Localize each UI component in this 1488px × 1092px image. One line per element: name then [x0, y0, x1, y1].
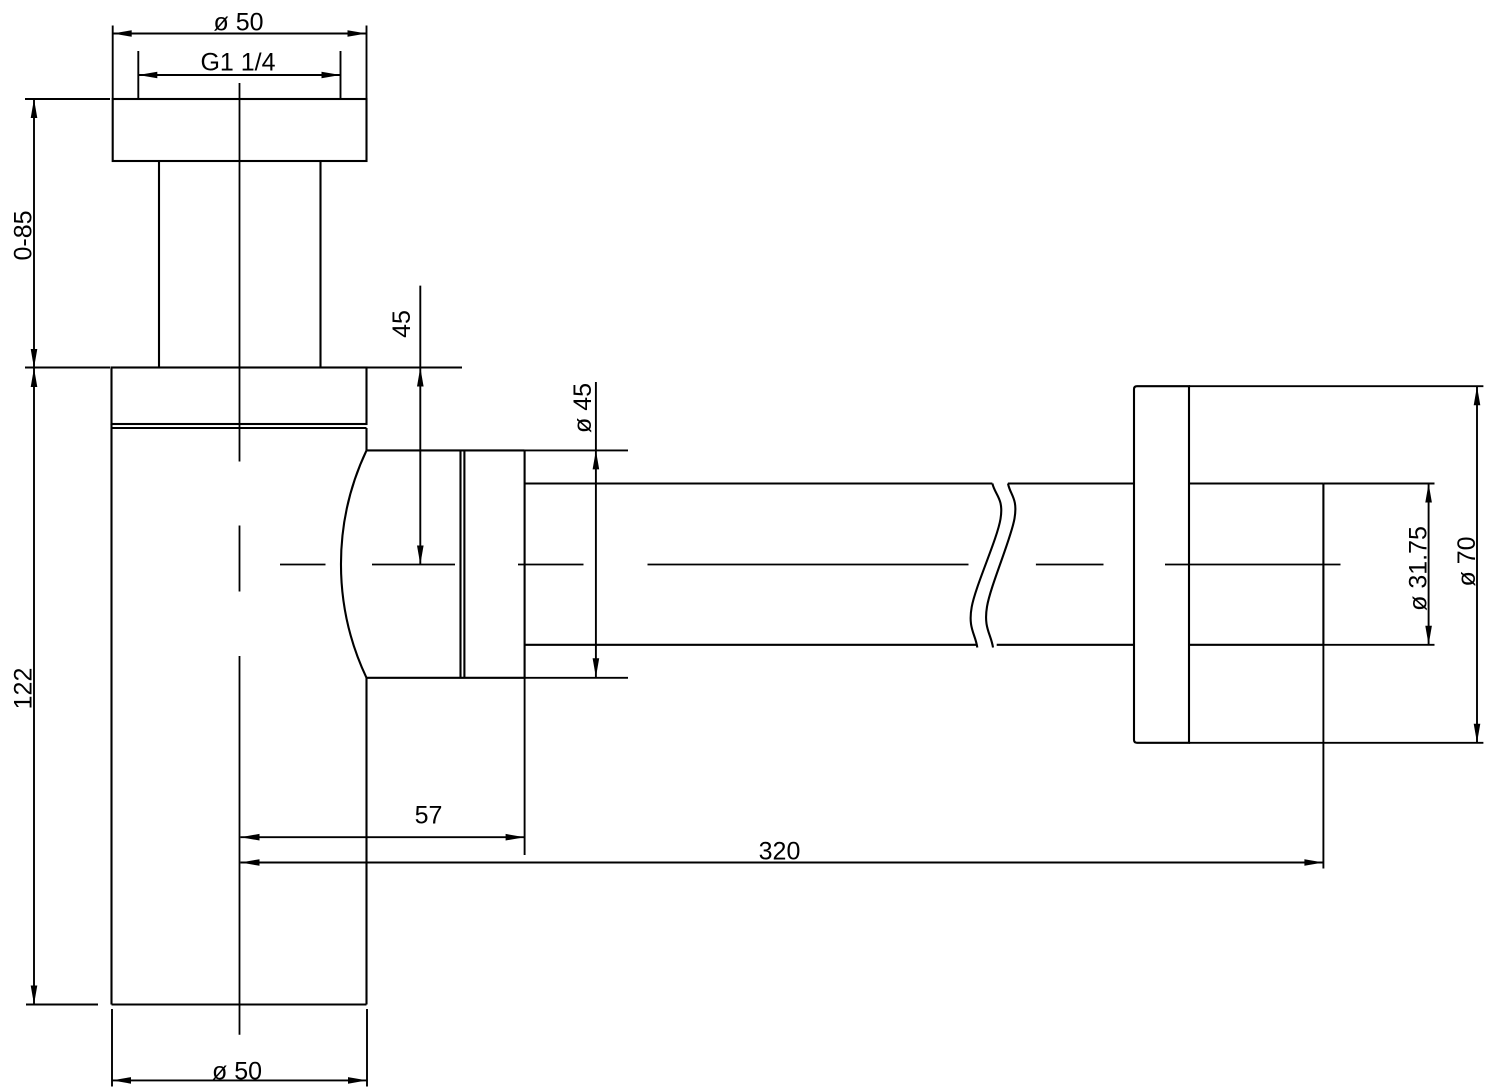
- dim 45: horizontal extension line: [367, 367, 463, 369]
- pipe bottom edge left of break: [525, 644, 977, 646]
- svg-text:45: 45: [388, 310, 416, 338]
- pipe top edge left of break: [525, 482, 993, 484]
- dim 122: bottom extension line: [26, 1004, 98, 1006]
- body left wall: [110, 424, 112, 1005]
- svg-text:ø 45: ø 45: [569, 383, 597, 433]
- arrow G1 1/4 right: [322, 72, 341, 79]
- dim 0-85: top extension line: [25, 98, 110, 100]
- arrow 122 top: [31, 368, 38, 387]
- wall flange outline: [1134, 386, 1189, 743]
- body vertical centerline: [239, 83, 241, 1035]
- arrow 320 left: [241, 859, 260, 866]
- outlet nut right face: [524, 450, 526, 677]
- dim ø50 top: extension lines: [112, 26, 114, 99]
- dim G1 1/4: extension lines: [137, 51, 139, 99]
- arrow ø31.75 bottom: [1425, 626, 1432, 645]
- dim ø31.75: dimension line: [1428, 484, 1430, 645]
- pipe bottom edge right of break: [997, 644, 1134, 646]
- arrow G1 1/4 left: [138, 72, 157, 79]
- arrow ø31.75 top: [1425, 484, 1432, 503]
- body right wall upper: [365, 428, 367, 450]
- arrow ø50 top right: [348, 30, 367, 37]
- dim G1 1/4: dimension line: [138, 74, 340, 76]
- arrow 0-85 bottom: [31, 349, 38, 368]
- outlet nut bottom edge: [367, 677, 525, 679]
- dim ø70: dimension line: [1476, 386, 1478, 743]
- dim 57: dimension line: [241, 836, 525, 838]
- svg-text:ø 50: ø 50: [212, 1058, 262, 1086]
- svg-text:320: 320: [759, 838, 801, 866]
- dim 0-85 / 122 shared extension line: [25, 367, 110, 369]
- arrow 57 left: [241, 834, 260, 841]
- outlet nut spherical arc: [341, 450, 367, 677]
- pipe bottom edge right of flange: [1189, 644, 1323, 646]
- arrow 45 top: [417, 368, 424, 387]
- dim 320: right extension line: [1322, 645, 1324, 869]
- svg-text:G1 1/4: G1 1/4: [200, 49, 275, 77]
- dim 0-85: dimension line: [33, 99, 35, 368]
- svg-text:57: 57: [415, 802, 443, 830]
- body top flange: [112, 368, 367, 425]
- dim ø50 bottom: dimension line: [112, 1079, 367, 1081]
- outlet nut double line 2: [463, 450, 465, 677]
- tailpiece tube right wall: [319, 161, 321, 368]
- pipe top edge right of break: [1008, 482, 1134, 484]
- svg-text:ø 50: ø 50: [213, 9, 263, 37]
- pipe top edge right of flange: [1189, 482, 1323, 484]
- dim 57: right extension line: [524, 678, 526, 855]
- dim ø45: dimension line: [595, 382, 597, 677]
- arrow ø45 top: [593, 450, 600, 469]
- pipe break wavy line right: [986, 484, 1015, 648]
- dim 320: dimension line: [241, 862, 1324, 864]
- arrow 320 right: [1304, 859, 1323, 866]
- body bottom edge: [112, 1003, 367, 1005]
- pipe break wavy line left: [971, 484, 1002, 648]
- svg-text:122: 122: [10, 668, 38, 710]
- dim ø50 top: dimension line: [113, 33, 367, 35]
- dim ø31.75: extension lines: [1323, 483, 1434, 485]
- arrow 0-85 top: [31, 99, 38, 118]
- svg-text:ø 31.75: ø 31.75: [1405, 526, 1433, 611]
- dim ø50 bottom: extension lines: [111, 1009, 113, 1087]
- pipe horizontal centerline: [280, 564, 1341, 566]
- top flange outline: [113, 99, 367, 161]
- outlet nut top edge: [367, 449, 525, 451]
- body right wall lower: [365, 678, 367, 1005]
- arrow ø70 top: [1474, 386, 1481, 405]
- svg-text:ø 70: ø 70: [1453, 536, 1481, 586]
- tailpiece tube left wall: [158, 161, 160, 368]
- arrow ø45 bottom: [593, 658, 600, 677]
- arrow ø50 top left: [113, 30, 132, 37]
- arrow 45 bottom: [417, 546, 424, 565]
- dim 122: dimension line: [33, 368, 35, 1005]
- svg-text:0-85: 0-85: [10, 210, 38, 260]
- arrow 57 right: [506, 834, 525, 841]
- body joint line: [112, 427, 367, 429]
- dim ø45: extension lines: [525, 449, 628, 451]
- pipe end edge: [1322, 484, 1324, 645]
- outlet nut double line 1: [459, 450, 461, 677]
- arrow ø50 bottom left: [112, 1077, 131, 1084]
- arrow ø50 bottom right: [348, 1077, 367, 1084]
- dim ø70: extension lines: [1189, 385, 1483, 387]
- arrow ø70 bottom: [1474, 724, 1481, 743]
- arrow 122 bottom: [31, 986, 38, 1005]
- dim 45: dimension line with upper extension: [419, 286, 421, 565]
